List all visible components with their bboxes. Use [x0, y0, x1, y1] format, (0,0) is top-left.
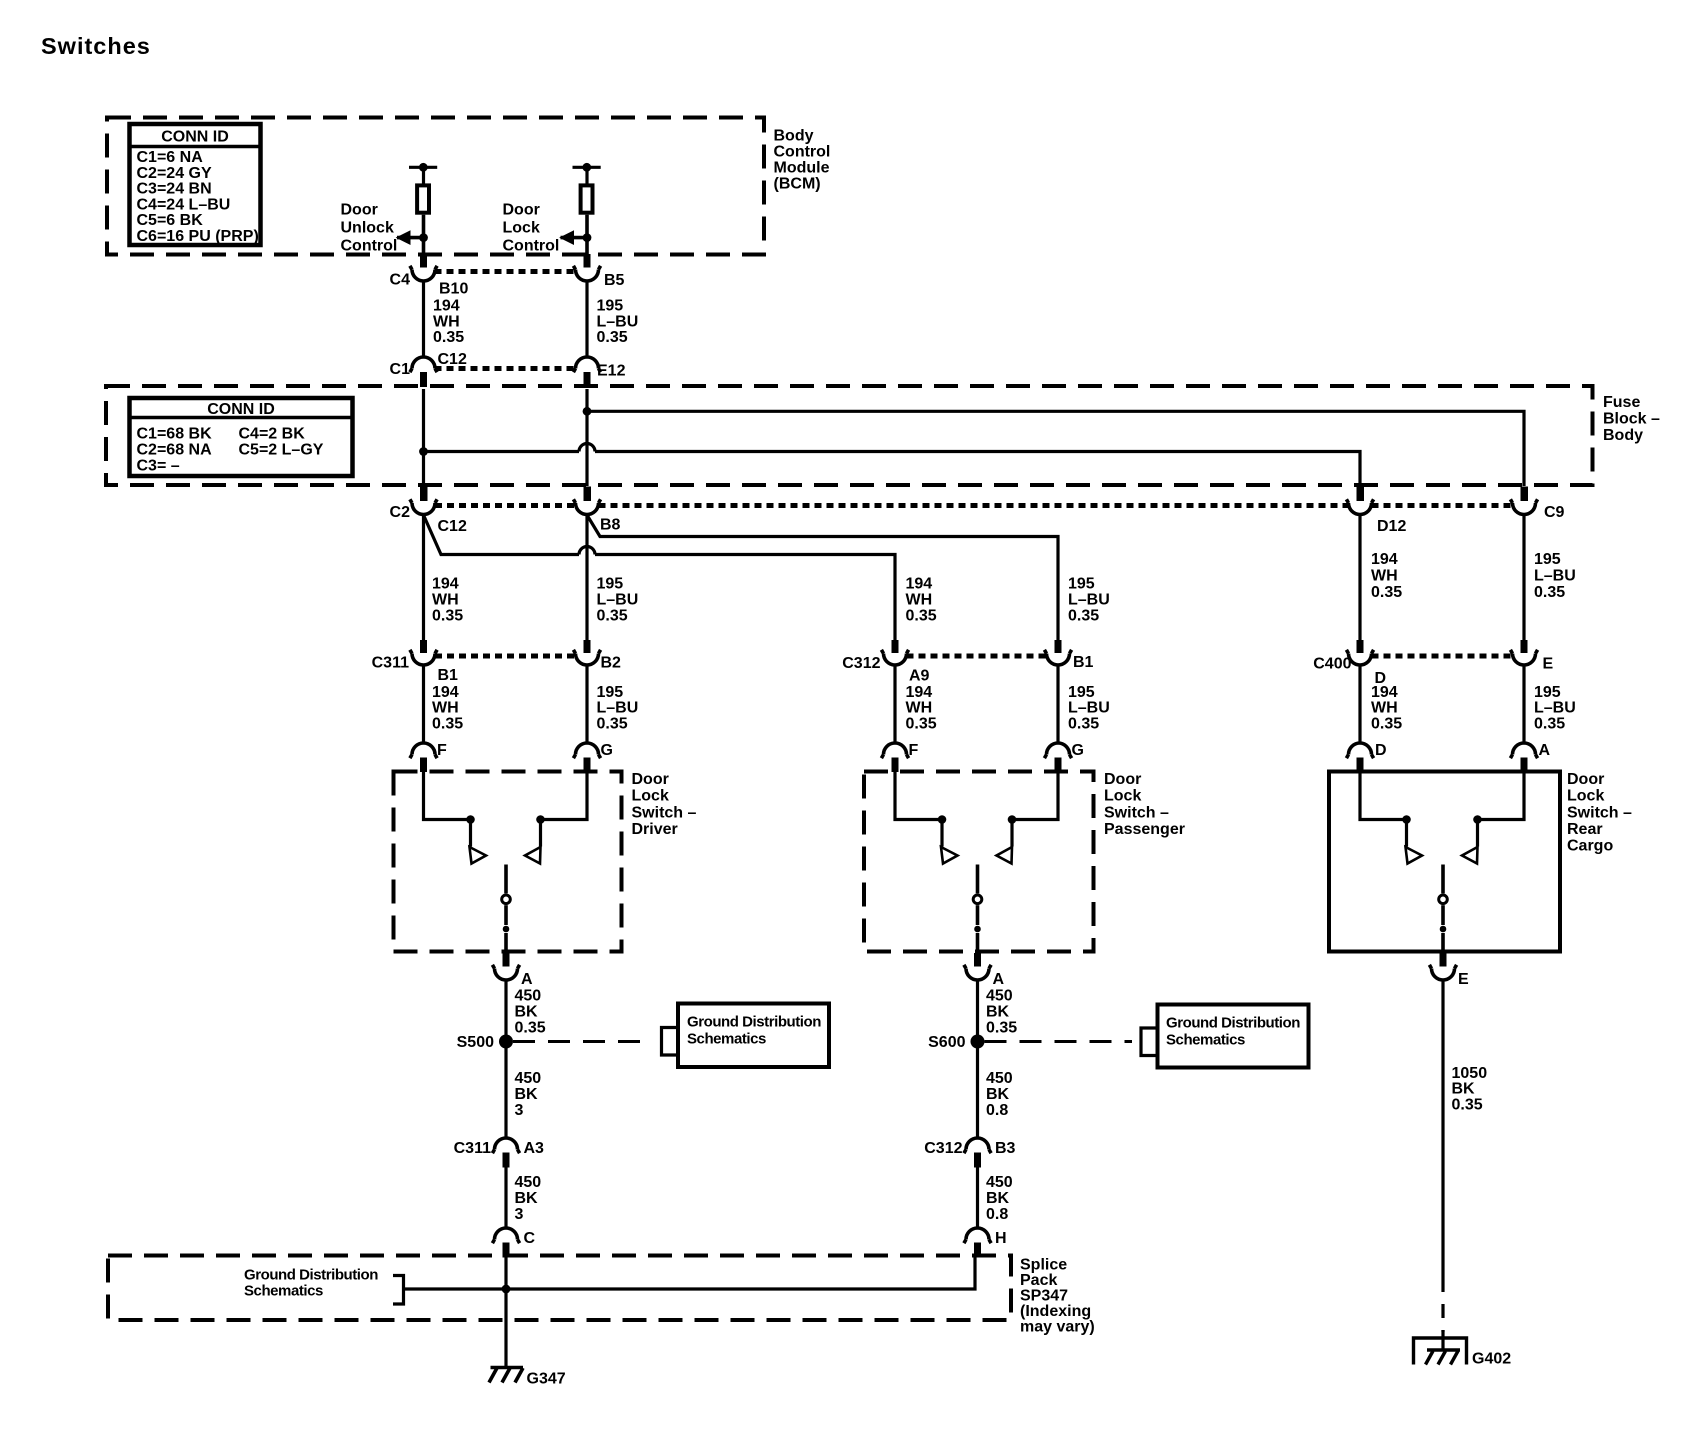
- svg-text:WH: WH: [1371, 700, 1398, 717]
- svg-text:L–BU: L–BU: [1534, 700, 1576, 717]
- svg-text:194: 194: [1371, 684, 1398, 701]
- svg-text:B1: B1: [438, 667, 459, 684]
- label 450 BK 0.35 passenger: [986, 988, 1017, 1037]
- svg-text:BK: BK: [986, 1190, 1010, 1207]
- svg-text:C4: C4: [390, 272, 411, 289]
- bracket ground distribution reference splice pack: [393, 1276, 404, 1305]
- contact arrowhead rear unlock: [1406, 847, 1423, 864]
- label 194 WH 0.35 rear lower: [1371, 684, 1402, 733]
- connector G driver: [573, 742, 613, 772]
- svg-text:C: C: [524, 1230, 536, 1247]
- wire 450 BK 3 C311 to C: [504, 1167, 507, 1229]
- connector C311 pin A3: [454, 1138, 544, 1168]
- svg-text:0.35: 0.35: [597, 329, 628, 346]
- wire 450 BK 0.35 passenger A to S600: [974, 953, 981, 1035]
- svg-text:Block –: Block –: [1603, 411, 1660, 428]
- svg-text:0.8: 0.8: [986, 1102, 1008, 1119]
- reference box Ground Distribution Schematics passenger: [1158, 1005, 1309, 1068]
- svg-text:Door: Door: [1567, 771, 1604, 788]
- svg-text:C1=6 NA: C1=6 NA: [137, 149, 204, 166]
- wire 195 B8 to passenger branch: [587, 515, 1058, 640]
- svg-text:S500: S500: [457, 1034, 494, 1051]
- svg-text:BK: BK: [1452, 1081, 1476, 1098]
- wire 194 C12 to passenger branch with hop over driver 195 wire: [424, 515, 896, 640]
- svg-text:194: 194: [906, 684, 933, 701]
- connector H splice pack passenger: [964, 1228, 1007, 1258]
- wire 1050 BK 0.35 rear E to G402: [1441, 980, 1444, 1278]
- label Door Lock Switch - Passenger: [1104, 771, 1185, 838]
- splice pack SP347 dashed box: [108, 1256, 1011, 1321]
- svg-text:450: 450: [515, 1070, 542, 1087]
- svg-text:D12: D12: [1377, 518, 1406, 535]
- svg-text:450: 450: [515, 1174, 542, 1191]
- svg-text:L–BU: L–BU: [1068, 700, 1110, 717]
- connector C2 pin C12: [390, 487, 467, 536]
- connector D rear switch: [1346, 742, 1386, 772]
- svg-text:L–BU: L–BU: [1068, 592, 1110, 609]
- connector A driver switch output: [492, 953, 533, 988]
- svg-text:Door: Door: [503, 202, 540, 219]
- svg-text:Lock: Lock: [632, 788, 669, 805]
- wire passenger common to box edge: [976, 933, 980, 953]
- connector F driver: [410, 742, 447, 772]
- node junction rear lock throw: [1473, 815, 1482, 824]
- label 450 BK 0.8: [986, 1070, 1013, 1119]
- svg-text:C1=68 BK: C1=68 BK: [137, 426, 213, 443]
- label 195 L-BU 0.35 rear lower: [1534, 684, 1576, 733]
- connector A rear switch: [1510, 742, 1550, 772]
- Fuse Block CONN ID table: [130, 398, 353, 476]
- wire driver ground C through splice to G347: [504, 1258, 507, 1368]
- svg-text:A: A: [1539, 742, 1551, 759]
- node junction passenger unlock throw: [938, 815, 947, 824]
- svg-text:C12: C12: [438, 518, 467, 535]
- reference box Ground Distribution Schematics driver: [678, 1004, 829, 1068]
- svg-text:A: A: [993, 971, 1005, 988]
- dotted connector interface C2-B8-D12-C9: [435, 503, 1513, 508]
- connector D12: [1346, 487, 1406, 536]
- connector C9: [1510, 487, 1564, 522]
- node junction rear unlock throw: [1402, 815, 1411, 824]
- connector F passenger: [881, 742, 918, 772]
- resistor R2 door lock driver in BCM: [573, 163, 601, 236]
- wire passenger unlock contact stem: [940, 820, 943, 847]
- node marker passenger common: [974, 926, 981, 933]
- wire splice pack bus C to H: [404, 1258, 976, 1290]
- dashed wire segment to G402: [1441, 1278, 1444, 1332]
- svg-text:Ground Distribution: Ground Distribution: [1166, 1015, 1300, 1032]
- connector C splice pack driver: [492, 1228, 535, 1258]
- label 195 L-BU 0.35: [597, 298, 639, 347]
- svg-text:B2: B2: [601, 655, 622, 672]
- svg-text:0.8: 0.8: [986, 1206, 1008, 1223]
- svg-text:Passenger: Passenger: [1104, 821, 1185, 838]
- wire 450 BK 0.35 driver A to S500: [504, 980, 507, 1035]
- svg-text:0.35: 0.35: [1371, 584, 1402, 601]
- node marker driver common: [503, 926, 510, 933]
- svg-text:C312: C312: [924, 1140, 962, 1157]
- svg-text:C5=6 BK: C5=6 BK: [137, 212, 204, 229]
- svg-text:Lock: Lock: [503, 220, 540, 237]
- switch Door Lock Switch - Rear Cargo solid box: [1329, 772, 1560, 952]
- label Door Lock Switch - Driver: [632, 771, 697, 838]
- svg-text:F: F: [909, 742, 919, 759]
- svg-text:D: D: [1375, 742, 1387, 759]
- svg-text:194: 194: [1371, 551, 1398, 568]
- svg-text:Module: Module: [774, 160, 830, 177]
- svg-text:F: F: [437, 742, 447, 759]
- node junction door unlock output: [419, 233, 428, 242]
- dotted connector interface C400 D-E: [1372, 654, 1513, 659]
- svg-text:WH: WH: [1371, 568, 1398, 585]
- svg-text:Switch –: Switch –: [1104, 804, 1169, 821]
- svg-text:450: 450: [986, 1174, 1013, 1191]
- wire 194 inside fuse block C1 to C2: [422, 389, 425, 486]
- node junction door lock output: [583, 233, 592, 242]
- svg-text:0.35: 0.35: [1534, 584, 1565, 601]
- node junction driver unlock throw: [466, 815, 475, 824]
- svg-text:Driver: Driver: [632, 821, 678, 838]
- svg-text:0.35: 0.35: [906, 716, 937, 733]
- svg-text:A3: A3: [524, 1140, 545, 1157]
- contact arrowhead driver lock: [525, 847, 541, 864]
- svg-text:0.35: 0.35: [597, 608, 628, 625]
- wire driver unlock contact stem: [469, 820, 472, 847]
- svg-text:195: 195: [1534, 684, 1561, 701]
- svg-text:C12: C12: [438, 351, 467, 368]
- label 195 L-BU 0.35 passenger lower: [1068, 684, 1110, 733]
- svg-text:Door: Door: [341, 202, 378, 219]
- wire passenger common below pivot: [976, 905, 980, 925]
- wire 194 WH 0.35 from C4 to C1: [422, 281, 425, 359]
- label 450 BK 3 lower: [515, 1174, 542, 1223]
- wire 195 L-BU rear C9 to E: [1522, 515, 1525, 640]
- svg-text:0.35: 0.35: [432, 608, 463, 625]
- svg-text:Lock: Lock: [1567, 788, 1604, 805]
- connector B2: [573, 640, 621, 672]
- wire rear common to box edge: [1441, 933, 1445, 953]
- svg-text:Door: Door: [1104, 771, 1141, 788]
- wire passenger switch unlock throw: [895, 770, 942, 820]
- svg-text:C311: C311: [372, 655, 409, 672]
- svg-text:B8: B8: [600, 517, 621, 534]
- ground G347: [489, 1368, 566, 1388]
- label Splice Pack SP347 (Indexing may vary): [1020, 1257, 1095, 1336]
- svg-text:G: G: [1072, 742, 1084, 759]
- connector B1 passenger: [1044, 640, 1093, 671]
- svg-text:194: 194: [433, 298, 460, 315]
- node junction 194 bus at C1 wire: [419, 447, 428, 456]
- svg-text:Fuse: Fuse: [1603, 394, 1640, 411]
- wire 194 WH rear D to D: [1358, 665, 1361, 745]
- switch pivot circle passenger: [973, 895, 982, 904]
- wire 195 L-BU driver B8 to B2: [585, 515, 588, 640]
- splice S600: [971, 1035, 985, 1049]
- svg-text:C312: C312: [842, 655, 880, 672]
- BCM CONN ID table: [130, 124, 261, 245]
- svg-text:0.35: 0.35: [515, 1020, 546, 1037]
- wire 195 inside fuse block E12 to B8: [585, 389, 588, 486]
- label 194 WH 0.35 driver lower: [432, 684, 463, 733]
- wire rear lock contact stem: [1476, 820, 1479, 847]
- arrow Door Unlock Control output: [396, 230, 424, 245]
- switch pivot circle driver: [502, 895, 511, 904]
- label 194 WH 0.35: [433, 298, 464, 347]
- label 194 WH 0.35 rear: [1371, 551, 1402, 601]
- svg-text:C311: C311: [454, 1140, 491, 1157]
- svg-text:Schematics: Schematics: [687, 1031, 766, 1048]
- svg-text:Switch –: Switch –: [632, 804, 697, 821]
- svg-text:C6=16 PU (PRP): C6=16 PU (PRP): [137, 228, 259, 245]
- label 194 WH 0.35 passenger: [906, 576, 937, 625]
- label 195 L-BU 0.35 driver lower: [597, 684, 639, 733]
- svg-text:Control: Control: [774, 144, 831, 161]
- label 195 L-BU 0.35 driver: [597, 576, 639, 625]
- node junction driver lock throw: [536, 815, 545, 824]
- ground G402: [1414, 1330, 1512, 1368]
- svg-text:0.35: 0.35: [986, 1020, 1017, 1037]
- svg-text:194: 194: [906, 576, 933, 593]
- svg-text:B3: B3: [995, 1140, 1016, 1157]
- svg-text:G: G: [601, 742, 613, 759]
- wire 450 BK 3 S500 to C311: [504, 1048, 507, 1139]
- wire 450 BK 0.8 S600 to C312: [976, 1048, 979, 1139]
- label 194 WH 0.35 passenger lower: [906, 684, 937, 733]
- svg-text:Unlock: Unlock: [341, 220, 394, 237]
- wire 194 WH driver B1 to F: [422, 665, 425, 745]
- svg-text:L–BU: L–BU: [597, 700, 639, 717]
- label 194 WH 0.35 driver: [432, 576, 463, 625]
- svg-text:C2: C2: [390, 504, 411, 521]
- contact arrowhead rear lock: [1462, 847, 1478, 864]
- svg-text:WH: WH: [906, 700, 933, 717]
- svg-text:Pack: Pack: [1020, 1272, 1057, 1289]
- contact arrowhead passenger lock: [997, 847, 1013, 864]
- connector C312 pin A9: [842, 640, 929, 685]
- svg-text:Body: Body: [1603, 427, 1643, 444]
- svg-text:WH: WH: [906, 592, 933, 609]
- node junction splice bus at driver ground wire: [502, 1285, 511, 1294]
- wire 194 WH rear D12 to C400: [1358, 515, 1361, 640]
- svg-text:Cargo: Cargo: [1567, 838, 1613, 855]
- svg-text:Body: Body: [774, 128, 814, 145]
- svg-text:WH: WH: [433, 314, 460, 331]
- label Ground Distribution Schematics inside splice pack: [244, 1267, 378, 1300]
- wire driver common below pivot: [504, 905, 508, 925]
- switch pivot circle rear: [1439, 895, 1448, 904]
- svg-text:L–BU: L–BU: [597, 314, 639, 331]
- svg-text:C3=24 BN: C3=24 BN: [137, 181, 212, 198]
- wire driver switch lock throw: [541, 770, 588, 820]
- label 450 BK 3: [515, 1070, 542, 1119]
- dotted connector interface C311 B1-B2: [435, 654, 576, 659]
- svg-text:C4=2 BK: C4=2 BK: [239, 426, 306, 443]
- switch Door Lock Switch - Passenger dashed box: [864, 772, 1094, 952]
- wire rear switch lock throw: [1478, 770, 1525, 820]
- svg-text:E12: E12: [597, 363, 626, 380]
- wire passenger switch common pole: [976, 865, 980, 894]
- wire BCM unlock output to connector C4: [420, 238, 427, 268]
- label Body Control Module (BCM): [774, 128, 831, 193]
- label 195 L-BU 0.35 rear: [1534, 551, 1576, 601]
- svg-text:C5=2 L–GY: C5=2 L–GY: [239, 442, 324, 459]
- dashed reference link S600 to ground distribution schematics: [985, 1040, 1133, 1043]
- svg-text:195: 195: [597, 298, 624, 315]
- svg-text:may vary): may vary): [1020, 1319, 1095, 1336]
- dotted connector interface C4-B5: [435, 269, 576, 274]
- arrow Door Lock Control output: [559, 230, 587, 245]
- svg-text:L–BU: L–BU: [1534, 568, 1576, 585]
- svg-text:Switch –: Switch –: [1567, 804, 1632, 821]
- node marker rear common: [1440, 926, 1447, 933]
- svg-text:C9: C9: [1544, 504, 1565, 521]
- resistor R1 door unlock driver in BCM: [409, 163, 437, 236]
- svg-text:A9: A9: [909, 668, 930, 685]
- svg-text:0.35: 0.35: [433, 329, 464, 346]
- svg-text:195: 195: [597, 684, 624, 701]
- splice S500: [499, 1035, 513, 1049]
- wire driver switch common pole: [504, 865, 508, 894]
- connector E rear: [1510, 640, 1553, 673]
- svg-text:BK: BK: [986, 1004, 1010, 1021]
- svg-text:E: E: [1458, 971, 1469, 988]
- connector C4 pin B10: [390, 266, 469, 298]
- connector B5: [573, 266, 624, 289]
- svg-text:C3= –: C3= –: [137, 458, 180, 475]
- label 450 BK 0.35 driver: [515, 988, 546, 1037]
- svg-text:CONN ID: CONN ID: [207, 401, 275, 418]
- connector B8: [573, 487, 620, 534]
- wire 195 L-BU 0.35 from B5 to E12: [585, 281, 588, 359]
- svg-text:0.35: 0.35: [906, 608, 937, 625]
- connector C1 pin C12: [390, 351, 467, 387]
- svg-text:450: 450: [515, 988, 542, 1005]
- module Body Control Module (BCM) dashed box: [107, 118, 764, 255]
- bracket ground distribution reference driver: [662, 1028, 677, 1056]
- svg-text:0.35: 0.35: [1068, 608, 1099, 625]
- svg-text:Schematics: Schematics: [244, 1283, 323, 1300]
- svg-text:0.35: 0.35: [597, 716, 628, 733]
- wire passenger switch lock throw: [1012, 770, 1058, 820]
- svg-text:WH: WH: [432, 700, 459, 717]
- svg-text:SP347: SP347: [1020, 1288, 1068, 1305]
- svg-text:Rear: Rear: [1567, 821, 1603, 838]
- label Fuse Block - Body: [1603, 394, 1660, 444]
- svg-text:BK: BK: [515, 1004, 539, 1021]
- connector E rear switch output: [1429, 953, 1469, 988]
- module Fuse Block - Body dashed box: [106, 386, 1593, 485]
- svg-text:0.35: 0.35: [432, 716, 463, 733]
- wire driver switch unlock throw: [424, 770, 471, 820]
- svg-text:Schematics: Schematics: [1166, 1032, 1245, 1049]
- connector E12: [573, 357, 625, 387]
- svg-text:BK: BK: [986, 1086, 1010, 1103]
- label Door Lock Control: [503, 202, 560, 255]
- svg-text:G402: G402: [1472, 1351, 1511, 1368]
- label 195 L-BU 0.35 passenger: [1068, 576, 1110, 625]
- svg-text:3: 3: [515, 1102, 524, 1119]
- svg-text:C400: C400: [1313, 656, 1351, 673]
- svg-text:Door: Door: [632, 771, 669, 788]
- svg-text:0.35: 0.35: [1371, 716, 1402, 733]
- wire driver lock contact stem: [539, 820, 542, 847]
- svg-text:450: 450: [986, 988, 1013, 1005]
- svg-text:Control: Control: [503, 238, 560, 255]
- svg-text:C2=24 GY: C2=24 GY: [137, 165, 212, 182]
- svg-text:B10: B10: [439, 281, 468, 298]
- svg-text:CONN ID: CONN ID: [161, 129, 229, 146]
- svg-text:C2=68 NA: C2=68 NA: [137, 442, 213, 459]
- svg-text:195: 195: [1534, 551, 1561, 568]
- svg-text:0.35: 0.35: [1534, 716, 1565, 733]
- node junction passenger lock throw: [1008, 815, 1017, 824]
- wire rear common below pivot: [1441, 905, 1445, 925]
- svg-text:195: 195: [1068, 576, 1095, 593]
- bracket ground distribution reference passenger: [1141, 1028, 1156, 1056]
- svg-text:BK: BK: [515, 1086, 539, 1103]
- wire driver common to box edge: [504, 933, 508, 953]
- svg-text:E: E: [1543, 656, 1554, 673]
- wire rear switch unlock throw: [1360, 770, 1407, 820]
- dashed reference link S500 to ground distribution schematics: [513, 1040, 652, 1043]
- svg-text:195: 195: [597, 576, 624, 593]
- wire passenger lock contact stem: [1010, 820, 1013, 847]
- dotted connector interface C1-E12: [435, 366, 576, 371]
- connector C311 pin B1: [372, 640, 458, 684]
- svg-text:S600: S600: [928, 1034, 965, 1051]
- dotted connector interface C312 A9-B1: [907, 654, 1047, 659]
- wire 194 bus to D12 inside fuse block with hop over 195 wire: [424, 444, 1361, 487]
- svg-text:1050: 1050: [1452, 1065, 1488, 1082]
- svg-text:B5: B5: [604, 272, 625, 289]
- svg-text:C1: C1: [390, 361, 411, 378]
- connector C312 pin B3: [924, 1138, 1015, 1168]
- svg-text:195: 195: [1068, 684, 1095, 701]
- label 1050 BK 0.35: [1452, 1065, 1488, 1114]
- svg-text:Lock: Lock: [1104, 788, 1141, 805]
- svg-text:450: 450: [986, 1070, 1013, 1087]
- svg-text:Control: Control: [341, 238, 398, 255]
- svg-text:WH: WH: [432, 592, 459, 609]
- svg-text:0.35: 0.35: [1068, 716, 1099, 733]
- svg-text:194: 194: [432, 576, 459, 593]
- svg-text:0.35: 0.35: [1452, 1097, 1483, 1114]
- wire 450 BK 0.8 C312 to H: [976, 1167, 979, 1229]
- wire 194 WH passenger A9 to F: [893, 665, 896, 745]
- wire 195 L-BU rear E to A: [1522, 665, 1525, 745]
- wire BCM lock output to connector B5: [584, 238, 591, 268]
- svg-text:Splice: Splice: [1020, 1257, 1067, 1274]
- svg-text:BK: BK: [515, 1190, 539, 1207]
- wire 194 WH driver C12 to C311: [422, 515, 425, 640]
- svg-text:B1: B1: [1073, 654, 1094, 671]
- label Door Lock Switch - Rear Cargo: [1567, 771, 1632, 855]
- wire 195 bus to C9 inside fuse block: [587, 411, 1524, 486]
- svg-text:Ground Distribution: Ground Distribution: [687, 1014, 821, 1031]
- node junction 195 bus at E12 wire: [583, 407, 592, 416]
- svg-text:L–BU: L–BU: [597, 592, 639, 609]
- svg-text:Ground Distribution: Ground Distribution: [244, 1267, 378, 1284]
- switch Door Lock Switch - Driver dashed box: [394, 772, 622, 952]
- svg-text:3: 3: [515, 1206, 524, 1223]
- svg-text:(BCM): (BCM): [774, 176, 821, 193]
- svg-text:C4=24 L–BU: C4=24 L–BU: [137, 196, 231, 213]
- wire rear unlock contact stem: [1405, 820, 1408, 847]
- connector G passenger: [1044, 742, 1084, 772]
- svg-text:194: 194: [432, 684, 459, 701]
- svg-text:A: A: [521, 971, 533, 988]
- wire rear switch common pole: [1441, 865, 1445, 894]
